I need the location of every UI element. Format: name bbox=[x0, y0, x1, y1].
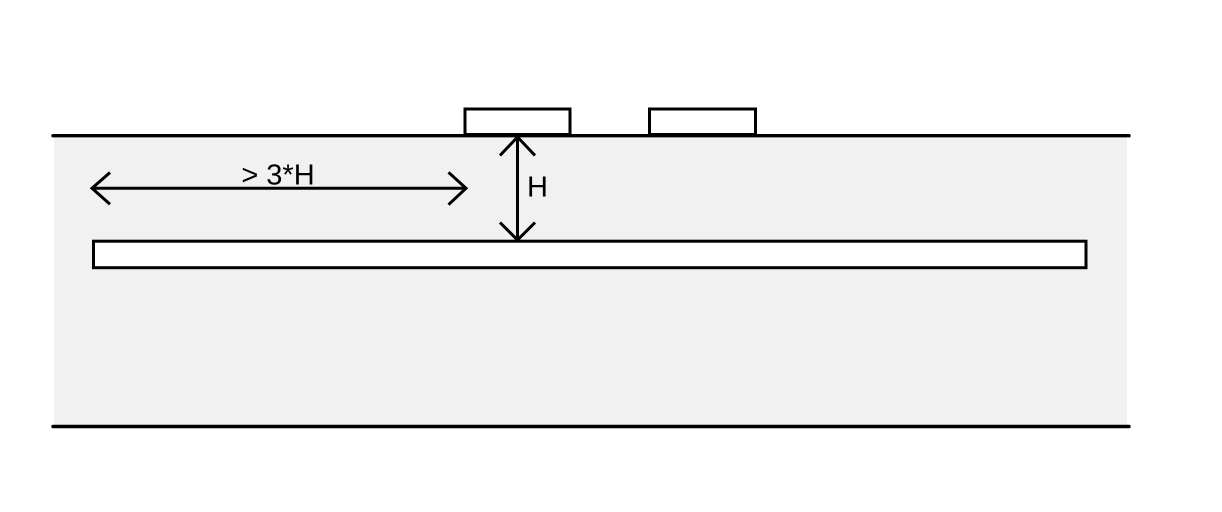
vertical dimension arrow bbox=[500, 137, 535, 240]
substrate (PCB dielectric) bbox=[54, 136, 1127, 426]
inner plane (ground plane) bbox=[94, 241, 1087, 268]
pad 2 (right trace) bbox=[650, 109, 756, 135]
bottom copper layer line bbox=[53, 425, 1129, 428]
svg-text:H: H bbox=[527, 172, 548, 204]
pad 1 (left trace) bbox=[465, 109, 570, 135]
top copper layer line bbox=[53, 134, 1129, 137]
horizontal dimension arrow bbox=[92, 172, 466, 204]
svg-text:> 3*H: > 3*H bbox=[241, 159, 314, 191]
